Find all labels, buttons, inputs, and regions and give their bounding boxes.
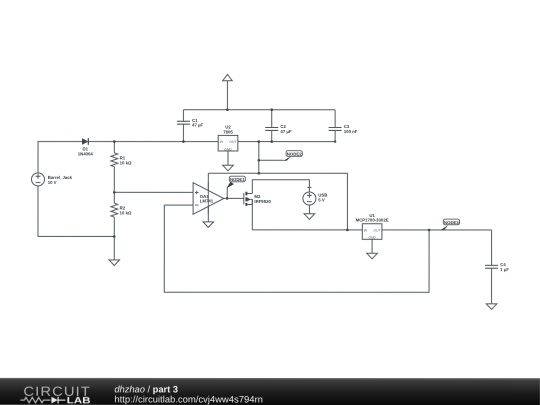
wire ground stub bottom left — [113, 236, 115, 260]
wire C1 bottom lead — [182, 124, 184, 141]
ground C4 — [486, 304, 497, 310]
voltage source USB — [303, 187, 316, 205]
svg-text:10 kΩ: 10 kΩ — [120, 160, 132, 165]
svg-text:IN: IN — [364, 228, 368, 232]
wire R1 bottom lead to node B — [113, 167, 115, 193]
junction node A diode/R1 — [113, 140, 116, 143]
wire cathode D1 to node A — [88, 141, 114, 143]
junction node B divider mid — [113, 191, 116, 194]
junction feedback tap — [428, 229, 431, 232]
ground U1 — [367, 253, 378, 259]
wire U2 GND stub — [227, 151, 229, 165]
svg-text:NODE3: NODE3 — [444, 220, 459, 225]
wire C3 top lead — [334, 110, 336, 128]
junction NODE2 branch top — [258, 140, 261, 143]
svg-text:LM741: LM741 — [200, 198, 214, 203]
svg-text:IN: IN — [220, 140, 224, 144]
wire R2 top lead — [113, 192, 115, 203]
svg-text:IRF9530: IRF9530 — [254, 199, 271, 204]
junction op-amp output node — [226, 197, 229, 200]
svg-text:OUT: OUT — [373, 228, 381, 232]
wire R2 bottom lead — [113, 217, 115, 236]
wire bottom rail to U1 IN — [252, 229, 362, 231]
wire node B to op-amp + input — [114, 191, 193, 193]
logo resistor squiggle — [20, 397, 50, 402]
svg-text:NODE1: NODE1 — [230, 177, 245, 182]
capacitor C1 — [177, 121, 190, 124]
flag NODE3 — [440, 219, 459, 230]
wire op-amp output to gate — [224, 197, 244, 199]
op-amp supply line through body — [195, 183, 208, 214]
svg-text:7805: 7805 — [223, 129, 233, 134]
svg-text:MCP1700-3302E: MCP1700-3302E — [356, 218, 389, 223]
regulator U1 MCP1700 box — [362, 224, 382, 240]
resistor R1 — [111, 153, 118, 167]
transistor M2 IRF9530 — [244, 192, 253, 206]
wire M2 source down — [251, 199, 253, 230]
wire 5V rail to op-amp V+ and right corner — [208, 173, 347, 230]
junction rail U1 IN — [346, 229, 349, 232]
wire op-amp - input — [164, 204, 193, 206]
power flag VCC — [223, 74, 233, 80]
svg-text:OUT: OUT — [229, 140, 237, 144]
wire V1 bottom rail — [38, 186, 114, 237]
svg-text:GND: GND — [368, 236, 376, 240]
svg-text:47 µF: 47 µF — [280, 129, 291, 134]
wire NODE2 tap — [259, 159, 284, 161]
wire feedback loop — [164, 205, 429, 292]
voltage source V1 Barrel_Jack — [32, 173, 45, 186]
ground U2 — [223, 165, 234, 171]
svg-text:1 µF: 1 µF — [500, 267, 509, 272]
svg-text:10 kΩ: 10 kΩ — [120, 211, 132, 216]
resistor R2 — [111, 203, 118, 217]
wire node A to C1 and U2 IN — [114, 141, 218, 143]
wire op-amp supply stem — [207, 173, 209, 222]
wire M2 drain to USB + — [252, 180, 309, 194]
junction power flag tap — [226, 108, 229, 111]
ground USB — [304, 214, 315, 220]
junction C1 bottom — [182, 140, 185, 143]
svg-text:dhzhao / part 3: dhzhao / part 3 — [114, 384, 178, 394]
svg-text:http://circuitlab.com/cvj4ww4s: http://circuitlab.com/cvj4ww4s794rn — [114, 395, 263, 405]
wire NODE2 branch vertical — [258, 142, 260, 174]
regulator U2 7805 box — [218, 135, 238, 151]
svg-text:GND: GND — [224, 147, 232, 151]
ground op-amp — [203, 222, 214, 228]
wire C1 top lead — [182, 110, 184, 122]
footer bar — [0, 378, 540, 405]
wire U2 OUT rail — [238, 141, 335, 143]
svg-text:5 V: 5 V — [318, 197, 325, 202]
wire C2 top lead — [271, 110, 273, 128]
junction C2 top — [270, 108, 273, 111]
wire power flag stem — [226, 81, 228, 110]
wire C2 bottom lead — [271, 130, 273, 141]
junction 5V rail joint — [258, 172, 261, 175]
logo diode symbol — [51, 397, 58, 404]
wire V1 top to rail — [38, 141, 82, 172]
svg-text:47 µF: 47 µF — [192, 123, 203, 128]
wire USB ground stub — [308, 205, 310, 214]
capacitor C4 — [485, 265, 498, 268]
ground bottom left — [109, 260, 120, 266]
svg-text:LAB: LAB — [67, 395, 91, 405]
wire top power rail — [183, 109, 335, 111]
wire U1 OUT to C4 — [382, 229, 492, 231]
svg-text:10 V: 10 V — [48, 180, 57, 185]
wire C4 top lead — [491, 230, 493, 265]
flag NODE2 — [283, 151, 302, 161]
flag NODE1 — [227, 176, 246, 198]
svg-text:100 nF: 100 nF — [344, 129, 358, 134]
diode D1 — [82, 138, 88, 145]
wire C4 bottom lead — [491, 268, 493, 304]
junction bottom left — [113, 235, 116, 238]
capacitor C2 — [265, 127, 278, 130]
svg-text:1N4004: 1N4004 — [78, 151, 94, 156]
svg-text:NODE2: NODE2 — [287, 151, 302, 156]
junction NODE2 tap — [258, 159, 261, 162]
op-amp OA1 triangle — [193, 183, 224, 215]
junction C3 bottom — [334, 140, 336, 142]
junction C2 bottom — [270, 140, 273, 143]
wire U1 GND stub — [371, 239, 373, 253]
wire R1 top lead — [113, 142, 115, 153]
capacitor C3 — [329, 128, 342, 131]
wire C3 bottom lead — [334, 130, 336, 141]
